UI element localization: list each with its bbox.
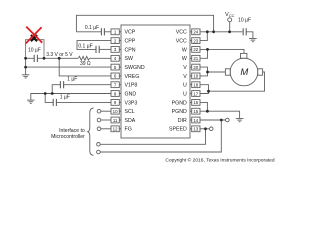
- svg-text:23: 23: [193, 38, 198, 43]
- svg-text:Copyright © 2016, Texas Instru: Copyright © 2016, Texas Instruments Inco…: [165, 156, 275, 163]
- node swgnd-gnd: [24, 66, 27, 69]
- svg-text:SW: SW: [125, 56, 134, 62]
- wire SPEED pin13 to connector: [200, 128, 210, 130]
- svg-text:3: 3: [114, 47, 117, 52]
- svg-text:1 µF: 1 µF: [60, 95, 70, 101]
- node v: [206, 71, 209, 74]
- svg-text:U: U: [183, 83, 187, 89]
- svg-text:12: 12: [113, 127, 118, 132]
- node dir: [220, 119, 223, 122]
- capacitor C2 0.1uF flying cap CPP-CPN: [77, 41, 111, 53]
- svg-text:1: 1: [114, 30, 117, 35]
- 3.3V/5V rail wire: [26, 57, 111, 59]
- pin 1 box: [111, 29, 121, 35]
- svg-text:VCP: VCP: [125, 30, 136, 36]
- svg-text:VCC: VCC: [176, 39, 187, 45]
- svg-text:5: 5: [114, 65, 117, 70]
- node vcc-top: [212, 30, 215, 33]
- pin 4 box: [111, 55, 121, 61]
- svg-text:Interface to: Interface to: [59, 128, 85, 134]
- svg-text:17: 17: [193, 91, 198, 96]
- pin 11 box: [111, 117, 121, 123]
- node rail-vreg: [58, 57, 61, 60]
- node vcc-supply: [228, 30, 231, 33]
- wire SWGND pin5 to left rail: [26, 66, 111, 68]
- svg-text:2: 2: [114, 38, 117, 43]
- wire GND pin8 to ground: [31, 94, 111, 101]
- pin 24 box: [190, 29, 200, 35]
- svg-text:1 µF: 1 µF: [67, 76, 77, 82]
- pin 22 box: [190, 47, 200, 53]
- pin 17 box: [190, 91, 200, 97]
- resistor R1 39 ohm: [78, 56, 89, 60]
- svg-text:DIR: DIR: [178, 118, 187, 124]
- svg-text:11: 11: [113, 118, 118, 123]
- supply VCC connector circle: [228, 18, 232, 32]
- svg-text:VCC: VCC: [225, 12, 235, 18]
- svg-text:CPN: CPN: [125, 47, 136, 53]
- pin 19 box: [190, 73, 200, 79]
- pin 9 box: [111, 100, 121, 106]
- node gnd-c5: [44, 92, 47, 95]
- svg-text:VREG: VREG: [125, 74, 140, 80]
- wire VCP cap to VCC top loop: [76, 15, 213, 32]
- svg-text:3.3 V or 5 V: 3.3 V or 5 V: [46, 52, 73, 58]
- svg-text:14: 14: [193, 118, 198, 123]
- svg-text:SPEED: SPEED: [169, 127, 187, 133]
- capacitor C3 10uF (crossed out): [34, 55, 37, 62]
- capacitor C1 0.1uF at VCP: [76, 28, 111, 35]
- pin 10 box: [111, 108, 121, 114]
- svg-text:10: 10: [113, 109, 118, 114]
- svg-text:18: 18: [193, 83, 198, 88]
- svg-text:16: 16: [193, 100, 198, 105]
- connector circle SCL: [97, 109, 101, 113]
- node rail-cap3: [24, 57, 27, 60]
- wire DIR return to microcontroller: [100, 120, 221, 152]
- ground G2: [27, 100, 35, 103]
- svg-text:22: 22: [193, 47, 198, 52]
- svg-text:W: W: [182, 47, 187, 53]
- svg-text:SWGND: SWGND: [125, 65, 145, 71]
- connector circle speed-mcu: [97, 143, 101, 147]
- pin 7 box: [111, 82, 121, 88]
- svg-text:39 Ω: 39 Ω: [80, 61, 91, 67]
- pin 2 box: [111, 38, 121, 44]
- svg-text:W: W: [182, 56, 187, 62]
- svg-text:U: U: [183, 91, 187, 97]
- svg-text:21: 21: [193, 56, 198, 61]
- svg-text:8: 8: [114, 91, 117, 96]
- wire SDA pin11: [101, 119, 111, 121]
- pin 23 box: [190, 38, 200, 44]
- svg-text:VCC: VCC: [176, 30, 187, 36]
- svg-text:13: 13: [193, 127, 198, 132]
- svg-text:V: V: [183, 65, 187, 71]
- red X annotation over C3: [26, 27, 42, 44]
- svg-text:FG: FG: [125, 127, 132, 133]
- pin 3 box: [111, 47, 121, 53]
- capacitor C6 10uF at VCC: [243, 28, 253, 38]
- svg-text:24: 24: [193, 30, 198, 35]
- wire SPEED return to microcontroller: [100, 129, 205, 145]
- svg-text:0.1 µF: 0.1 µF: [78, 43, 92, 49]
- brace interface group: [88, 108, 94, 155]
- node u: [207, 90, 210, 93]
- svg-text:V1P8: V1P8: [125, 83, 138, 89]
- connector circle SDA: [97, 118, 101, 122]
- node rail-box: [43, 57, 46, 60]
- svg-text:V3P3: V3P3: [125, 100, 138, 106]
- wire V pins 20,19 to motor left: [200, 67, 225, 76]
- svg-text:PGND: PGND: [172, 100, 187, 106]
- left ground vertical wire: [25, 58, 27, 75]
- svg-text:19: 19: [193, 74, 198, 79]
- svg-text:V: V: [183, 74, 187, 80]
- pin 12 box: [111, 126, 121, 132]
- wire VREG pin6 from rail: [59, 58, 111, 76]
- pin 16 box: [190, 100, 200, 106]
- black X mark under red X: [31, 35, 37, 41]
- op-amp U1 IC body DRV10983: [121, 25, 190, 138]
- connector circle dir-mcu: [97, 150, 101, 154]
- capacitor C5 1uF at V3P3: [45, 94, 111, 107]
- wire W pins 22,21 to motor top: [200, 49, 244, 58]
- pin numbers: [113, 30, 199, 132]
- svg-text:10 µF: 10 µF: [28, 48, 41, 54]
- connector circle FG: [97, 127, 101, 131]
- svg-text:20: 20: [193, 65, 198, 70]
- pin 18 box: [190, 82, 200, 88]
- annotation box around C3: [26, 40, 44, 59]
- svg-text:7: 7: [114, 83, 117, 88]
- pin 6 box: [111, 73, 121, 79]
- svg-text:SCL: SCL: [125, 109, 135, 115]
- wire DIR pin14 to connector: [200, 119, 226, 121]
- node speed: [204, 127, 207, 130]
- ground G4: [236, 119, 244, 122]
- svg-text:CPP: CPP: [125, 39, 136, 45]
- pin 8 box: [111, 91, 121, 97]
- svg-text:PGND: PGND: [172, 109, 187, 115]
- wire PGND pins 16,15 to ground: [200, 102, 240, 118]
- svg-text:M: M: [240, 67, 248, 78]
- motor M1: [225, 53, 262, 85]
- svg-text:GND: GND: [125, 91, 137, 97]
- pin 5 box: [111, 64, 121, 70]
- ground G1: [22, 75, 30, 78]
- pin names left: [125, 30, 145, 133]
- svg-text:0.1 µF: 0.1 µF: [85, 25, 99, 31]
- node w: [206, 48, 209, 51]
- svg-text:Microcontroller: Microcontroller: [51, 134, 85, 140]
- pin 20 box: [190, 64, 200, 70]
- svg-text:10 µF: 10 µF: [238, 18, 251, 24]
- wire FG pin12: [101, 128, 111, 130]
- node vcc-23: [206, 30, 209, 33]
- pin 15 box: [190, 108, 200, 114]
- pin names right: [169, 30, 187, 133]
- svg-text:9: 9: [114, 100, 117, 105]
- svg-text:4: 4: [114, 56, 117, 61]
- wire U pins 18,17 to motor right: [200, 72, 265, 94]
- svg-text:SDA: SDA: [125, 118, 136, 124]
- wire SCL pin10: [101, 110, 111, 112]
- svg-text:15: 15: [193, 109, 198, 114]
- pin 21 box: [190, 55, 200, 61]
- node pgnd: [206, 110, 209, 113]
- node gnd-c4: [51, 92, 54, 95]
- ground G3: [249, 39, 257, 42]
- connector circle SPEED: [209, 127, 213, 131]
- pin 14 box: [190, 117, 200, 123]
- pin 13 box: [190, 126, 200, 132]
- capacitor C4 1uF at V1P8: [52, 81, 111, 93]
- wire VCC rail pins 24,23: [200, 32, 243, 41]
- svg-text:6: 6: [114, 74, 117, 79]
- connector circle DIR: [226, 118, 230, 122]
